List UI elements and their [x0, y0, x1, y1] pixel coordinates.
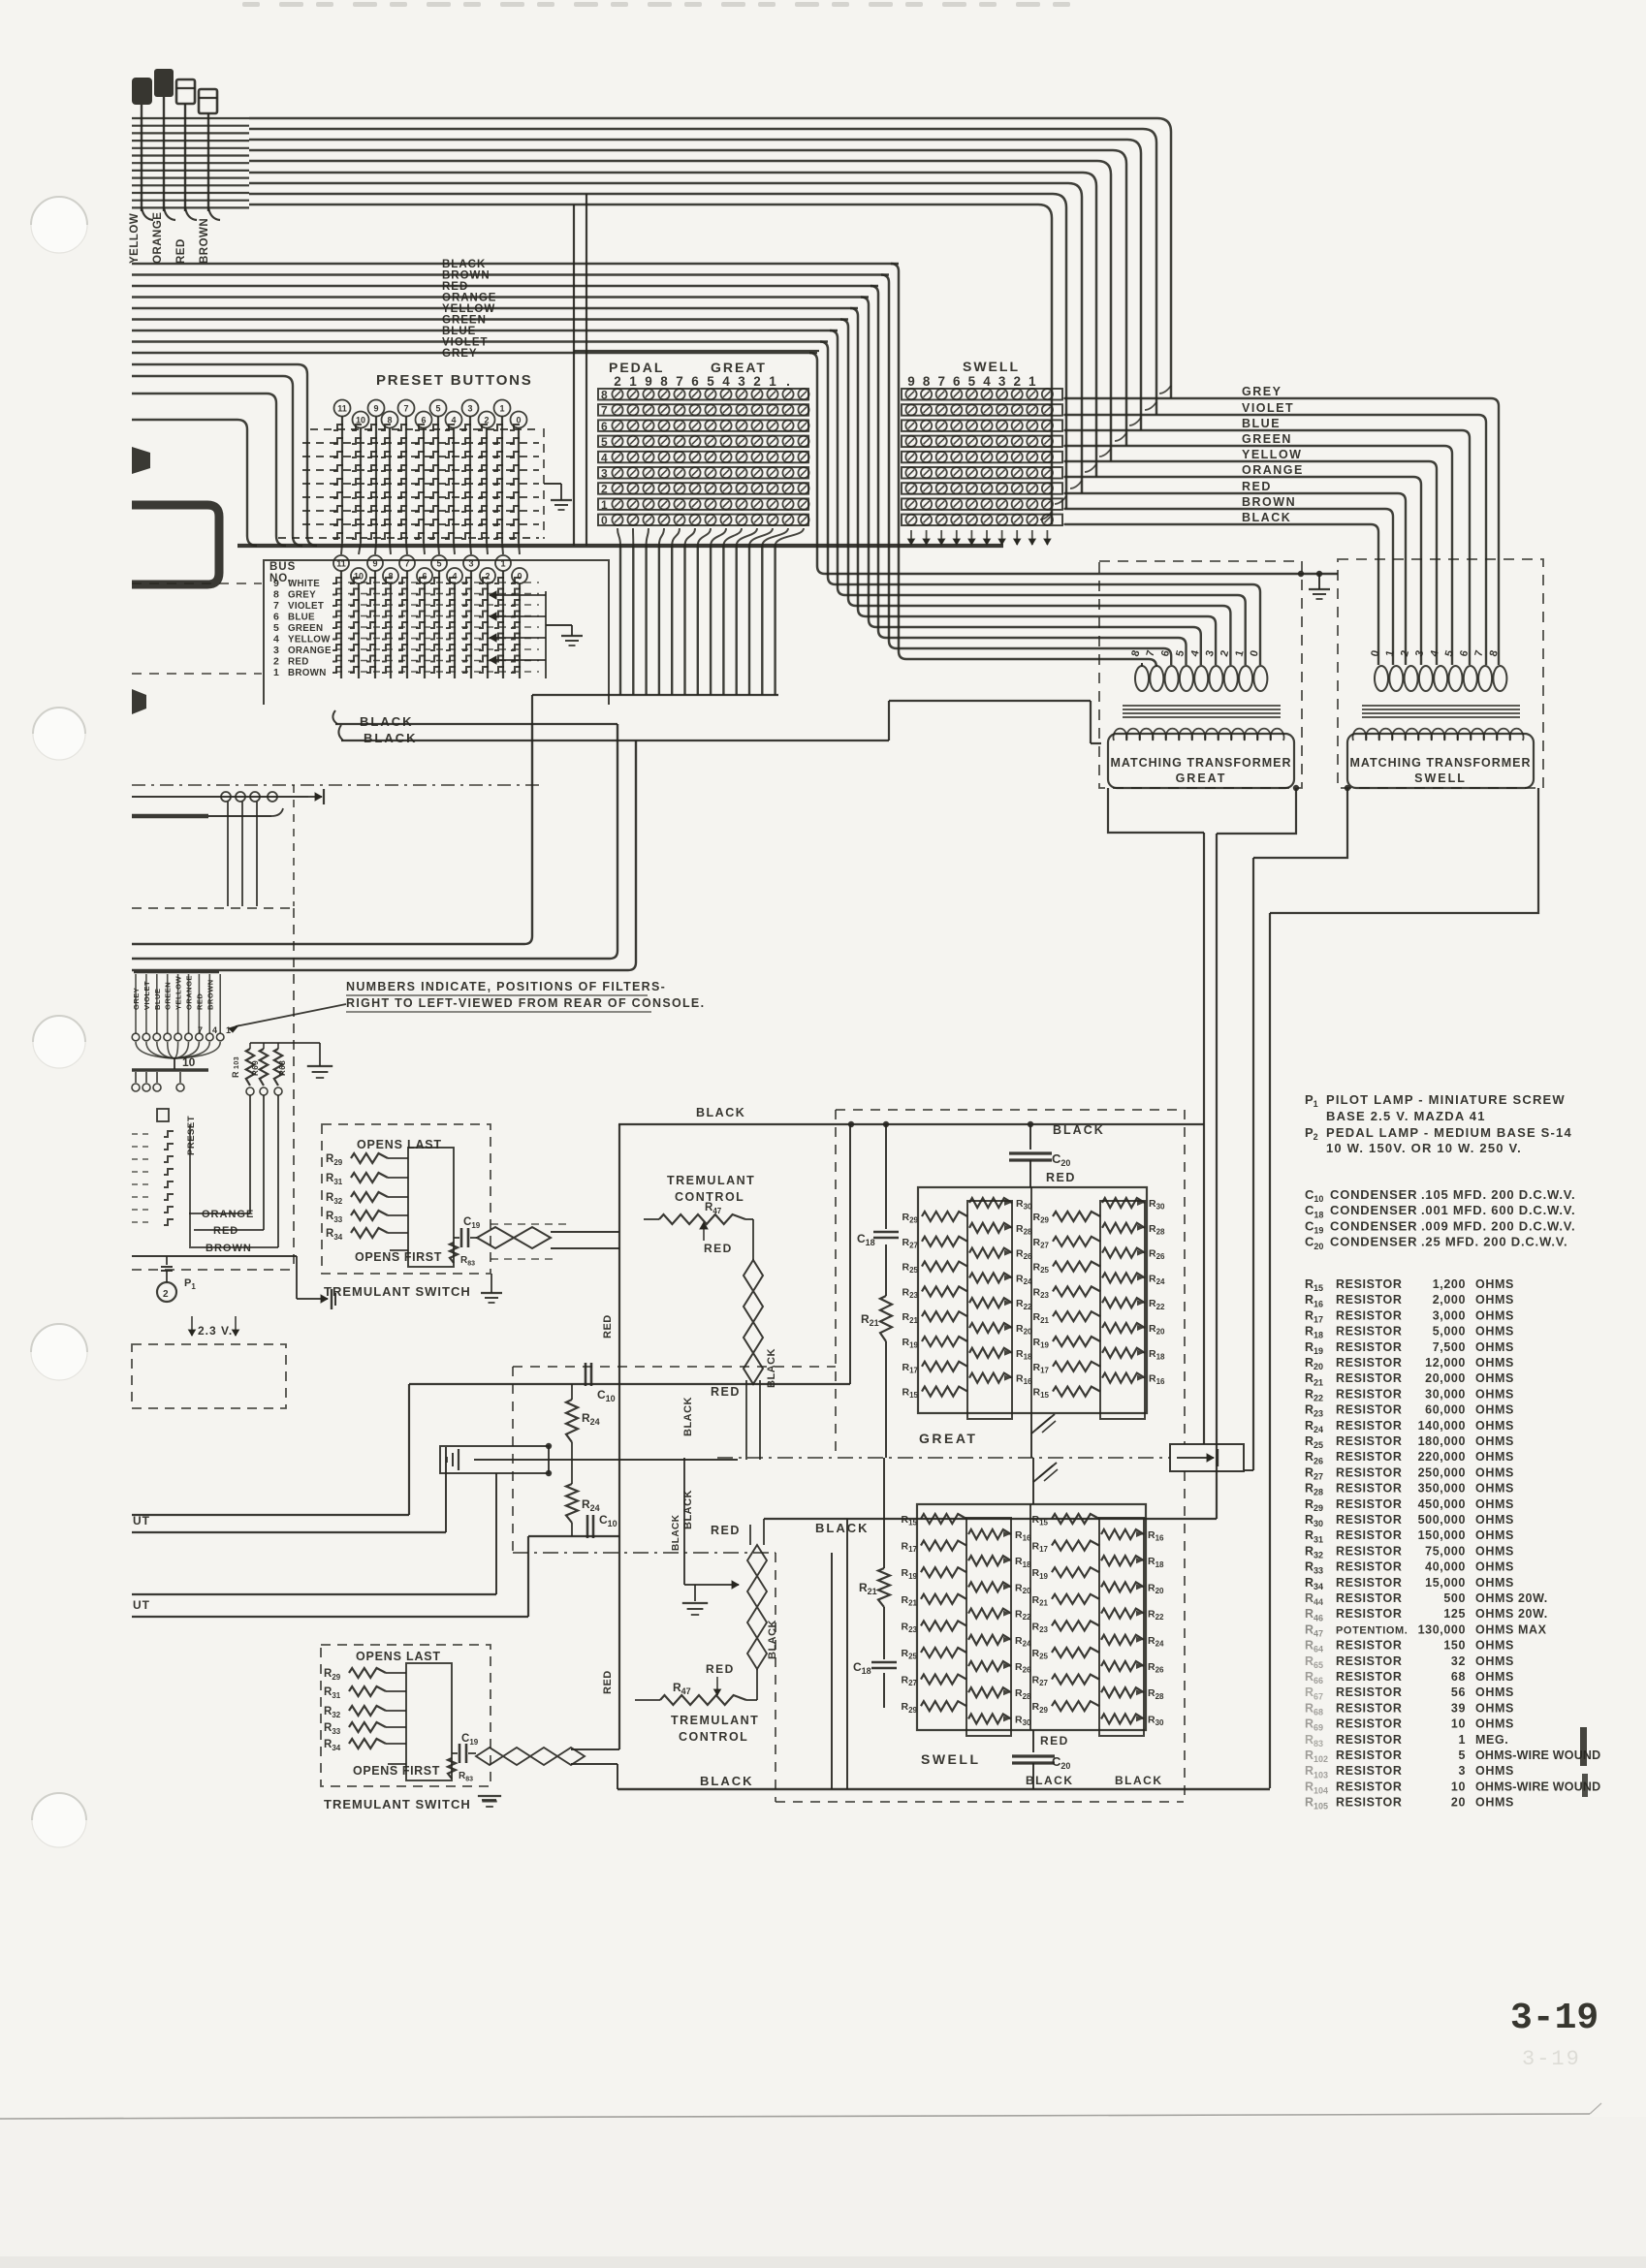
- bus grid solid box: [264, 560, 609, 705]
- thick stub line: [132, 814, 208, 819]
- vertical x877 to C10 line: [849, 1124, 851, 1384]
- svg-text:RESISTOR: RESISTOR: [1336, 1434, 1402, 1448]
- pedal strip drops to bus: [617, 528, 620, 546]
- svg-text:TREMULANT: TREMULANT: [671, 1714, 759, 1727]
- bus grid column circles and stems: [333, 555, 349, 571]
- svg-text:BLACK: BLACK: [700, 1774, 754, 1788]
- svg-text:10: 10: [1451, 1717, 1466, 1731]
- svg-text:4: 4: [601, 451, 608, 464]
- svg-text:GREAT: GREAT: [711, 360, 767, 375]
- svg-text:6: 6: [953, 374, 961, 389]
- svg-text:OHMS: OHMS: [1475, 1576, 1514, 1590]
- svg-text:7: 7: [273, 600, 279, 612]
- svg-text:VIOLET: VIOLET: [288, 601, 324, 612]
- svg-text:OHMS: OHMS: [1475, 1450, 1514, 1464]
- svg-text:BUS: BUS: [269, 561, 296, 573]
- svg-text:TREMULANT SWITCH: TREMULANT SWITCH: [324, 1797, 471, 1811]
- svg-text:TREMULANT: TREMULANT: [667, 1174, 755, 1187]
- svg-text:BLACK: BLACK: [696, 1106, 745, 1119]
- svg-text:CONDENSER: CONDENSER: [1330, 1187, 1417, 1202]
- svg-text:3: 3: [1458, 1764, 1466, 1778]
- svg-text:ORANGE: ORANGE: [442, 293, 496, 304]
- svg-text:CONDENSER: CONDENSER: [1330, 1203, 1417, 1217]
- svg-text:350,000: 350,000: [1418, 1482, 1466, 1496]
- svg-text:RESISTOR: RESISTOR: [1336, 1560, 1402, 1574]
- svg-text:BROWN: BROWN: [206, 1243, 252, 1254]
- swell transformer dashed box: [1338, 559, 1543, 788]
- svg-text:OHMS: OHMS: [1475, 1371, 1514, 1385]
- svg-text:OHMS: OHMS: [1475, 1639, 1514, 1653]
- long vertical to great network: [1203, 833, 1205, 1444]
- svg-text:OHMS: OHMS: [1475, 1685, 1514, 1699]
- svg-text:8: 8: [923, 374, 931, 389]
- capacitor C10 upper: [585, 1363, 587, 1386]
- wire y764 long with hop: [338, 725, 343, 740]
- capacitor C10 lower: [586, 1515, 589, 1538]
- svg-text:4: 4: [452, 572, 457, 582]
- svg-text:RESISTOR: RESISTOR: [1336, 1356, 1402, 1370]
- dashed vertical right x1222: [1184, 1110, 1186, 1444]
- svg-text:RESISTOR: RESISTOR: [1336, 1293, 1402, 1307]
- dashed vertical x298: [293, 785, 295, 906]
- ground right of preset grid: [544, 483, 561, 485]
- ground symbol near swell transformer: [1318, 574, 1320, 589]
- svg-text:.009 MFD. 200 D.C.W.V.: .009 MFD. 200 D.C.W.V.: [1421, 1218, 1575, 1233]
- junction stubs down: [227, 802, 229, 906]
- svg-text:YELLOW: YELLOW: [129, 213, 141, 264]
- connector plug 2 (orange lead): [154, 69, 174, 97]
- svg-text:7: 7: [676, 374, 683, 389]
- svg-text:GREEN: GREEN: [442, 315, 487, 327]
- svg-text:TREMULANT SWITCH: TREMULANT SWITCH: [324, 1284, 471, 1299]
- svg-text:PRESET BUTTONS: PRESET BUTTONS: [376, 372, 533, 389]
- wire y974: [132, 943, 524, 946]
- svg-text:OHMS: OHMS: [1475, 1434, 1514, 1448]
- svg-text:RESISTOR: RESISTOR: [1336, 1308, 1402, 1322]
- svg-text:RESISTOR: RESISTOR: [1336, 1419, 1402, 1433]
- tremulant switch 2 resistors: [406, 1663, 452, 1780]
- wire bus B horizontals: [132, 263, 899, 266]
- svg-text:2: 2: [273, 656, 279, 668]
- svg-text:BLACK: BLACK: [682, 1397, 694, 1436]
- svg-text:9: 9: [645, 374, 652, 389]
- svg-text:1: 1: [273, 667, 279, 678]
- svg-text:OHMS 20W.: OHMS 20W.: [1475, 1591, 1548, 1605]
- svg-text:OHMS MAX: OHMS MAX: [1475, 1622, 1547, 1636]
- svg-text:6: 6: [691, 374, 699, 389]
- wire y989: [132, 958, 610, 961]
- svg-text:8: 8: [388, 572, 393, 582]
- svg-text:1: 1: [769, 374, 776, 389]
- svg-text:VIOLET: VIOLET: [442, 337, 489, 349]
- output wire pair 2: [132, 1593, 496, 1595]
- svg-text:BLACK: BLACK: [1115, 1774, 1163, 1787]
- wire P1 top: [132, 1255, 297, 1257]
- preset grid dashed border: [543, 428, 545, 539]
- wire junction row: [132, 796, 308, 798]
- svg-text:RESISTOR: RESISTOR: [1336, 1607, 1402, 1621]
- swell transformer bottom leads: [1253, 788, 1347, 858]
- svg-text:ORANGE: ORANGE: [288, 646, 332, 656]
- vertical x912 lower C18 R21 branch: [883, 1458, 885, 1568]
- svg-text:BLACK: BLACK: [1026, 1774, 1074, 1787]
- svg-text:1: 1: [1029, 374, 1036, 389]
- svg-text:40,000: 40,000: [1425, 1560, 1466, 1574]
- note pointer line: [236, 1004, 346, 1026]
- console wedge lower: [132, 689, 146, 714]
- svg-text:OHMS: OHMS: [1475, 1654, 1514, 1668]
- second terminal bar: [132, 1068, 208, 1071]
- capacitor C18: [873, 1231, 899, 1234]
- svg-text:RESISTOR: RESISTOR: [1336, 1387, 1402, 1401]
- long vertical to arrow box: [1252, 858, 1254, 1470]
- swell network bottom lead: [1032, 1730, 1034, 1752]
- capacitor C20 upper: [1029, 1124, 1031, 1150]
- great transformer dashed box: [1099, 561, 1302, 788]
- svg-text:130,000: 130,000: [1418, 1622, 1466, 1636]
- vertical x914 C18 R21 branch: [885, 1124, 887, 1229]
- svg-text:150,000: 150,000: [1418, 1528, 1466, 1542]
- great transformer bottom leads: [1108, 788, 1204, 833]
- svg-text:OHMS: OHMS: [1475, 1497, 1514, 1511]
- svg-text:BLUE: BLUE: [288, 613, 315, 623]
- svg-text:RESISTOR: RESISTOR: [1336, 1513, 1402, 1527]
- svg-text:3,000: 3,000: [1433, 1308, 1466, 1322]
- ground right of bus grid: [546, 624, 572, 626]
- arrow to twist: [684, 1584, 739, 1586]
- tremulant switch 1 resistors: [408, 1148, 454, 1267]
- svg-text:7,500: 7,500: [1433, 1340, 1466, 1354]
- tremulant switch 1 dashed box: [322, 1124, 491, 1274]
- dashed stubs at twist: [491, 1223, 567, 1225]
- svg-text:ORANGE: ORANGE: [152, 212, 164, 264]
- wire BLACK great filter: [618, 1123, 1204, 1125]
- svg-text:4: 4: [273, 634, 279, 646]
- svg-text:500,000: 500,000: [1418, 1513, 1466, 1527]
- svg-text:60,000: 60,000: [1425, 1403, 1466, 1417]
- svg-text:RED: RED: [711, 1524, 741, 1537]
- svg-text:220,000: 220,000: [1418, 1450, 1466, 1464]
- swell filter resistor network: [917, 1504, 1146, 1730]
- svg-text:OHMS: OHMS: [1475, 1465, 1514, 1479]
- svg-text:RESISTOR: RESISTOR: [1336, 1340, 1402, 1354]
- svg-text:RESISTOR: RESISTOR: [1336, 1764, 1402, 1778]
- svg-text:6: 6: [601, 420, 608, 433]
- svg-text:7: 7: [403, 404, 408, 414]
- svg-text:9: 9: [907, 374, 915, 389]
- ground mid: [694, 1585, 696, 1601]
- svg-text:YELLOW: YELLOW: [1242, 448, 1302, 461]
- svg-text:CONTROL: CONTROL: [679, 1730, 748, 1744]
- wires swell strip to swell transformer with right bends: [1062, 397, 1064, 399]
- filter converge bracket: [136, 1042, 174, 1058]
- svg-text:4: 4: [212, 1025, 217, 1035]
- svg-text:MATCHING TRANSFORMER: MATCHING TRANSFORMER: [1110, 756, 1291, 770]
- svg-text:RED: RED: [704, 1242, 733, 1255]
- svg-text:OHMS-WIRE WOUND: OHMS-WIRE WOUND: [1475, 1780, 1600, 1793]
- dashed y1410 and x529: [513, 1366, 836, 1368]
- svg-text:OHMS: OHMS: [1475, 1482, 1514, 1496]
- capacitor C20 lower: [1012, 1754, 1055, 1757]
- wire bus A to top-right bend and down: [249, 118, 1171, 398]
- svg-text:3: 3: [601, 467, 608, 481]
- connector plug 3 (red lead): [176, 79, 195, 104]
- svg-text:RESISTOR: RESISTOR: [1336, 1277, 1402, 1291]
- resistor R68: [274, 1049, 282, 1086]
- potentiometer R47 upper: [659, 1214, 745, 1224]
- swell terminal bars: [902, 389, 1062, 400]
- svg-text:RESISTOR: RESISTOR: [1336, 1482, 1402, 1496]
- swell strip drops to bus: [910, 530, 912, 545]
- swell network top slash: [1032, 1458, 1034, 1504]
- wire bottom BLACK: [617, 1764, 618, 1789]
- svg-text:.105 MFD. 200 D.C.W.V.: .105 MFD. 200 D.C.W.V.: [1421, 1187, 1575, 1202]
- svg-text:OHMS: OHMS: [1475, 1670, 1514, 1684]
- svg-text:7: 7: [937, 374, 945, 389]
- svg-text:OHMS 20W.: OHMS 20W.: [1475, 1607, 1548, 1621]
- hole punch 4: [31, 1324, 87, 1380]
- svg-text:OHMS: OHMS: [1475, 1717, 1514, 1731]
- note underline: [346, 994, 648, 996]
- filter bracket drop: [174, 1058, 175, 1069]
- dash-dot line y1504: [717, 1457, 1170, 1459]
- long vertical to bottom black: [1269, 913, 1271, 1788]
- svg-text:OPENS FIRST: OPENS FIRST: [353, 1764, 440, 1778]
- svg-text:BROWN: BROWN: [1242, 495, 1296, 509]
- hole punch 2: [33, 708, 85, 760]
- svg-text:250,000: 250,000: [1418, 1465, 1466, 1479]
- svg-text:39: 39: [1451, 1701, 1466, 1715]
- wire black long y1567: [764, 1518, 1217, 1520]
- svg-text:R68: R68: [278, 1060, 287, 1076]
- grid1-to-grid2 connector stems: [341, 543, 342, 554]
- console keyboard outline: [132, 505, 219, 584]
- svg-text:RED: RED: [288, 657, 309, 668]
- svg-text:BLUE: BLUE: [1242, 417, 1281, 430]
- svg-text:8: 8: [273, 589, 279, 601]
- svg-text:RED: RED: [1242, 480, 1272, 493]
- svg-text:RIGHT TO LEFT-VIEWED FROM REAR: RIGHT TO LEFT-VIEWED FROM REAR OF CONSOL…: [346, 996, 705, 1010]
- svg-text:15,000: 15,000: [1425, 1576, 1466, 1590]
- long vertical b: [1216, 834, 1218, 1519]
- svg-text:YELLOW: YELLOW: [288, 635, 331, 646]
- svg-text:GREEN: GREEN: [1242, 432, 1292, 446]
- resistor R21 lower: [878, 1568, 890, 1607]
- resistor R103: [246, 1049, 254, 1086]
- vertical black stub: [683, 1458, 685, 1585]
- resistor R24 lower: [571, 1460, 573, 1484]
- resistor R83 upper: [450, 1243, 458, 1263]
- tremulant switch 2 dashed box: [321, 1645, 491, 1786]
- svg-text:UT: UT: [133, 1514, 150, 1528]
- svg-text:OHMS: OHMS: [1475, 1544, 1514, 1558]
- svg-text:3: 3: [738, 374, 745, 389]
- wire mid ground line: [474, 1459, 738, 1461]
- verticals near swell label: [831, 1553, 833, 1789]
- svg-text:4: 4: [722, 374, 730, 389]
- svg-text:2: 2: [163, 1289, 169, 1300]
- svg-text:12,000: 12,000: [1425, 1356, 1466, 1370]
- svg-text:3: 3: [467, 404, 472, 414]
- svg-text:RED: RED: [1040, 1734, 1069, 1748]
- svg-text:.001 MFD. 600 D.C.W.V.: .001 MFD. 600 D.C.W.V.: [1421, 1203, 1575, 1217]
- great filter resistor network: [918, 1187, 1147, 1413]
- hole punch 3: [33, 1016, 85, 1068]
- svg-text:2: 2: [614, 374, 621, 389]
- swell transformer secondary: [1347, 734, 1534, 788]
- svg-text:POTENTIOM.: POTENTIOM.: [1336, 1624, 1408, 1636]
- filter wire stubs with terminals: [135, 974, 137, 1033]
- svg-text:RESISTOR: RESISTOR: [1336, 1639, 1402, 1653]
- twist vertical upper: [744, 1260, 763, 1384]
- resistor top common wire: [250, 1042, 320, 1044]
- svg-text:BROWN: BROWN: [199, 218, 210, 264]
- svg-text:RESISTOR: RESISTOR: [1336, 1497, 1402, 1511]
- svg-text:R69: R69: [251, 1060, 260, 1076]
- dashed row to console lower: [132, 673, 262, 675]
- great transformer primary coils: [1135, 666, 1149, 691]
- dashed box lower-left: [132, 1344, 286, 1408]
- svg-text:WHITE: WHITE: [288, 579, 320, 589]
- svg-text:RESISTOR: RESISTOR: [1336, 1465, 1402, 1479]
- wire ground bus to swell transformer: [825, 573, 1338, 575]
- svg-text:125: 125: [1443, 1607, 1466, 1621]
- svg-text:NUMBERS INDICATE, POSITIONS OF: NUMBERS INDICATE, POSITIONS OF FILTERS-: [346, 980, 666, 993]
- svg-text:1: 1: [1458, 1733, 1466, 1747]
- pilot lamp P1: [157, 1282, 176, 1302]
- svg-text:10 W. 150V. OR 10 W. 250 V.: 10 W. 150V. OR 10 W. 250 V.: [1326, 1141, 1522, 1155]
- svg-text:BLACK: BLACK: [442, 259, 486, 270]
- svg-text:10: 10: [182, 1055, 196, 1069]
- svg-text:BLACK: BLACK: [815, 1521, 870, 1535]
- svg-text:32: 32: [1451, 1654, 1466, 1668]
- svg-text:GREY: GREY: [1242, 385, 1282, 398]
- svg-text:10: 10: [1451, 1780, 1466, 1793]
- svg-text:68: 68: [1451, 1670, 1466, 1684]
- smudge marks wire wound: [1580, 1727, 1587, 1766]
- svg-text:6: 6: [422, 572, 427, 582]
- svg-text:5: 5: [707, 374, 714, 389]
- svg-text:OHMS: OHMS: [1475, 1701, 1514, 1715]
- svg-text:SWELL: SWELL: [963, 359, 1020, 374]
- svg-text:OHMS: OHMS: [1475, 1277, 1514, 1291]
- svg-text:8: 8: [601, 389, 608, 402]
- wire bus B corner bends down: [891, 264, 906, 659]
- svg-text:OHMS: OHMS: [1475, 1308, 1514, 1322]
- svg-text:8: 8: [660, 374, 668, 389]
- twisted pair lower horizontal: [476, 1748, 585, 1765]
- wire y1001: [132, 969, 628, 972]
- long vertical RED wire: [618, 1124, 620, 1749]
- svg-text:RED: RED: [706, 1662, 735, 1676]
- svg-text:30,000: 30,000: [1425, 1387, 1466, 1401]
- svg-text:VIOLET: VIOLET: [1242, 401, 1294, 415]
- svg-text:2: 2: [601, 483, 608, 496]
- svg-text:3: 3: [273, 645, 279, 656]
- svg-text:1: 1: [226, 1025, 231, 1035]
- svg-text:5: 5: [273, 622, 279, 634]
- svg-text:BLACK: BLACK: [1242, 511, 1291, 524]
- svg-text:1: 1: [601, 498, 608, 512]
- svg-text:.25 MFD. 200 D.C.W.V.: .25 MFD. 200 D.C.W.V.: [1421, 1235, 1567, 1249]
- resistor R69: [260, 1049, 268, 1086]
- svg-text:RESISTOR: RESISTOR: [1336, 1591, 1402, 1605]
- svg-text:CONDENSER: CONDENSER: [1330, 1235, 1417, 1249]
- great dashed box top: [836, 1109, 1185, 1111]
- filter header bar: [134, 971, 219, 973]
- svg-text:2: 2: [753, 374, 761, 389]
- svg-text:11: 11: [337, 404, 347, 414]
- capacitor C18 lower: [871, 1661, 897, 1664]
- resistor R21: [880, 1296, 892, 1341]
- svg-text:OHMS: OHMS: [1475, 1513, 1514, 1527]
- svg-text:BROWN: BROWN: [288, 668, 327, 678]
- svg-text:RESISTOR: RESISTOR: [1336, 1748, 1402, 1762]
- preset relay box: [157, 1109, 169, 1121]
- preset grid switch hooks: [333, 425, 343, 430]
- svg-text:GREY: GREY: [288, 590, 316, 601]
- hole punch 1: [31, 197, 87, 253]
- svg-text:GREEN: GREEN: [288, 623, 323, 634]
- svg-text:RESISTOR: RESISTOR: [1336, 1325, 1402, 1339]
- svg-text:RESISTOR: RESISTOR: [1336, 1576, 1402, 1590]
- great network bottom slash: [1030, 1412, 1032, 1458]
- svg-text:BLUE: BLUE: [442, 326, 476, 337]
- twisted pair upper horizontal: [477, 1227, 551, 1248]
- svg-text:BASE 2.5 V. MAZDA 41: BASE 2.5 V. MAZDA 41: [1326, 1109, 1486, 1123]
- svg-text:ORANGE: ORANGE: [202, 1209, 254, 1220]
- svg-text:5,000: 5,000: [1433, 1325, 1466, 1339]
- svg-text:OHMS: OHMS: [1475, 1325, 1514, 1339]
- svg-text:BROWN: BROWN: [442, 270, 491, 282]
- faint cut-off text top edge: [242, 2, 260, 7]
- svg-text:RESISTOR: RESISTOR: [1336, 1403, 1402, 1417]
- svg-text:0: 0: [601, 514, 608, 527]
- svg-text:3: 3: [998, 374, 1006, 389]
- orange red brown wires: [189, 1213, 250, 1214]
- heavy common bus: [237, 544, 1003, 548]
- svg-text:9: 9: [273, 578, 279, 589]
- output wire pair 1: [132, 1514, 409, 1516]
- svg-text:2: 2: [1013, 374, 1021, 389]
- svg-text:OPENS FIRST: OPENS FIRST: [355, 1250, 442, 1264]
- wires from console to common bus: [132, 364, 317, 546]
- svg-text:20: 20: [1451, 1796, 1466, 1810]
- preset switch column: [132, 1133, 153, 1135]
- svg-text:SWELL: SWELL: [1414, 772, 1467, 785]
- wire y747: [332, 710, 337, 724]
- chassis arrow box: [1170, 1444, 1244, 1471]
- svg-text:RESISTOR: RESISTOR: [1336, 1544, 1402, 1558]
- svg-text:450,000: 450,000: [1418, 1497, 1466, 1511]
- svg-text:103: 103: [234, 1056, 240, 1069]
- svg-text:BLACK: BLACK: [671, 1514, 681, 1551]
- svg-text:RESISTOR: RESISTOR: [1336, 1670, 1402, 1684]
- svg-text:500: 500: [1443, 1591, 1466, 1605]
- svg-text:0: 0: [517, 572, 522, 582]
- ground tremulant 2: [482, 1799, 496, 1801]
- svg-text:ORANGE: ORANGE: [1242, 463, 1304, 477]
- wire stubs bus A to pedal box: [586, 194, 587, 546]
- wires bundle into great transformer primary: [836, 584, 1260, 665]
- wire y717 collector: [532, 694, 778, 696]
- svg-text:PILOT LAMP - MINIATURE SCREW: PILOT LAMP - MINIATURE SCREW: [1326, 1092, 1566, 1107]
- svg-text:OPENS LAST: OPENS LAST: [356, 1650, 441, 1663]
- svg-text:20,000: 20,000: [1425, 1371, 1466, 1385]
- hole punch 5: [32, 1793, 86, 1847]
- swell transformer primary coils: [1375, 666, 1388, 691]
- svg-text:1,200: 1,200: [1433, 1277, 1466, 1291]
